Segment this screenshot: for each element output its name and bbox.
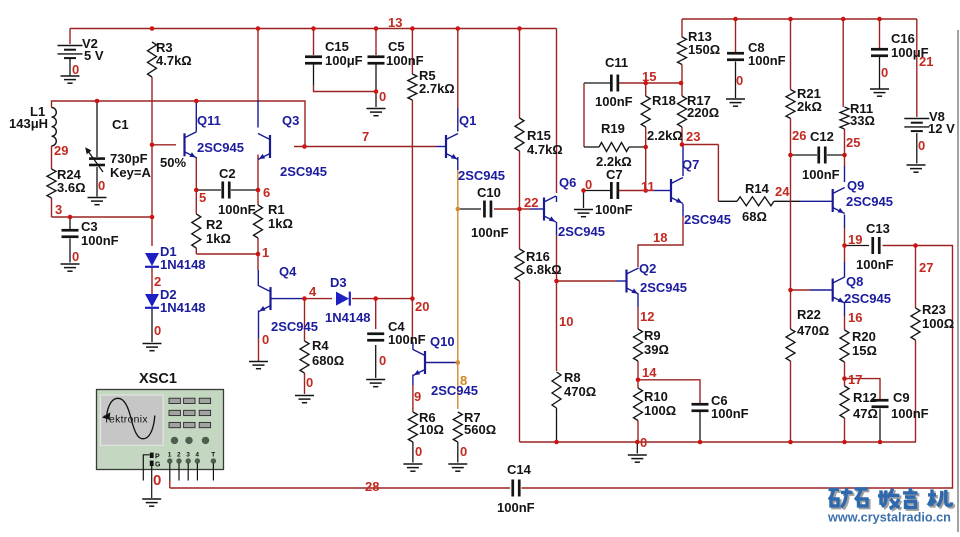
junction rail C6	[698, 440, 703, 445]
junction node21 C16	[877, 17, 882, 22]
wire Q3 emitter to node 6	[257, 155, 259, 191]
wire rail to C15	[313, 29, 315, 56]
transistor Q1 2SC945	[446, 134, 458, 160]
wire node 2 D1 to D2	[151, 268, 153, 295]
diode D1 1N4148	[145, 253, 159, 266]
wire Q8 emitter lead	[844, 303, 846, 316]
wire R16 bottom to 0V rail	[519, 281, 521, 442]
wire node 19 to Q8 collector	[844, 246, 846, 263]
svg-text:9: 9	[414, 389, 421, 404]
wire C10 to node 22	[494, 208, 520, 210]
svg-text:28: 28	[365, 479, 379, 494]
wire node 12	[637, 307, 639, 329]
junction node 0 C5/C15	[374, 89, 379, 94]
wire R1 bottom to node 1	[257, 238, 259, 254]
wire C11 right to node 15	[618, 82, 646, 84]
resistor R23 100	[911, 308, 920, 340]
ground Q4	[249, 362, 268, 369]
capacitor C5 100nF	[368, 55, 385, 58]
wire R2 bottom lead	[195, 248, 197, 254]
svg-text:23: 23	[686, 129, 700, 144]
resistor R19 2.2k	[599, 143, 629, 152]
wire R24 to node 3	[51, 198, 53, 217]
svg-text:1: 1	[168, 452, 172, 459]
capacitor C16 100uF	[871, 48, 888, 51]
wire R10 bottom to rail	[637, 421, 639, 443]
svg-text:25: 25	[846, 135, 860, 150]
junction node 15 R18	[643, 81, 648, 86]
variable capacitor C1 730pF	[89, 157, 105, 160]
wire node 20 to C4	[375, 299, 377, 329]
resistor R6 10	[408, 412, 417, 442]
wire R19 right lead	[629, 146, 646, 148]
junction node13 C5	[374, 26, 379, 31]
capacitor C2 100nF	[221, 182, 224, 199]
wire Q7 emitter lead	[682, 204, 684, 216]
wire C7 right to node 11	[618, 190, 646, 192]
svg-text:0: 0	[306, 375, 313, 390]
resistor R20 15	[840, 330, 849, 362]
svg-text:C14: C14	[507, 462, 532, 477]
svg-text:Key=A: Key=A	[110, 165, 151, 180]
wire rail to V8	[916, 19, 918, 117]
wire node 25 to Q9 collector	[844, 155, 846, 166]
diode D2 1N4148	[145, 294, 159, 307]
wire Q6 collector riser	[556, 29, 558, 194]
junction rail C9	[878, 440, 883, 445]
wire Q2 base lead	[616, 280, 627, 282]
capacitor C15 100uF	[305, 55, 322, 58]
wire rail to C5	[375, 29, 377, 56]
wire R23 bottom to rail	[915, 340, 917, 442]
svg-text:100nF: 100nF	[81, 233, 119, 248]
wire C7 left to ground	[584, 190, 612, 192]
svg-text:R18: R18	[652, 93, 676, 108]
wire Q8 collector lead	[844, 262, 846, 277]
svg-text:Q3: Q3	[282, 113, 299, 128]
wire scope pin 1 drop	[169, 480, 171, 488]
wire D3 cathode to node 20	[352, 298, 376, 300]
transistor Q10 2SC945	[413, 350, 425, 376]
junction node13 R3	[150, 26, 155, 31]
junction node 20	[410, 296, 415, 301]
svg-text:XSC1: XSC1	[139, 371, 177, 387]
transistor Q8 2SC945	[833, 277, 845, 303]
wire R8 bottom lead	[556, 408, 558, 442]
wire stub	[844, 442, 846, 443]
svg-text:Tektronix: Tektronix	[104, 414, 149, 425]
diode D3 1N4148	[336, 292, 349, 306]
svg-text:3: 3	[55, 202, 62, 217]
wire node 27 to C14 right	[522, 246, 953, 489]
ground V2	[61, 76, 80, 83]
svg-text:100nF: 100nF	[595, 202, 633, 217]
capacitor C10 100nF	[483, 201, 486, 218]
junction node13 R15	[517, 26, 522, 31]
svg-text:1N4148: 1N4148	[160, 300, 206, 315]
svg-text:6.8kΩ: 6.8kΩ	[526, 262, 562, 277]
svg-text:1: 1	[262, 245, 269, 260]
junction node 11 C7	[643, 188, 648, 193]
svg-text:1kΩ: 1kΩ	[268, 216, 293, 231]
junction node 19	[842, 243, 847, 248]
ground R4	[295, 396, 314, 403]
svg-text:R1: R1	[268, 202, 285, 217]
resistor R14 68	[737, 197, 774, 206]
wire node 1 down	[257, 254, 259, 270]
wire 0V bottom rail	[520, 441, 917, 443]
wire Q6 emitter lead	[556, 222, 558, 235]
svg-text:R20: R20	[852, 329, 876, 344]
ground 0V rail	[628, 455, 647, 462]
wire R18 top lead	[645, 83, 647, 96]
svg-text:2SC945: 2SC945	[431, 383, 478, 398]
svg-text:C15: C15	[325, 39, 349, 54]
wire Q4 emitter to ground	[258, 338, 260, 361]
resistor R1 1k	[254, 205, 263, 238]
svg-text:Q10: Q10	[430, 334, 455, 349]
wire R6 to ground	[412, 442, 414, 463]
resistor R5 2.7k	[408, 74, 417, 100]
wire ground stub at C7	[583, 191, 585, 209]
junction node21 C8	[733, 17, 738, 22]
wire rail to R5	[411, 29, 413, 75]
wire Q10 collector lead	[412, 342, 414, 350]
svg-text:15Ω: 15Ω	[852, 343, 877, 358]
svg-text:470Ω: 470Ω	[564, 384, 596, 399]
junction node 7	[302, 144, 307, 149]
junction node 4	[302, 296, 307, 301]
wire R17 top	[681, 83, 683, 96]
junction node 17	[842, 376, 847, 381]
wire node 3 vertical to D1	[151, 145, 153, 246]
svg-text:Q4: Q4	[279, 264, 297, 279]
ground C4	[366, 380, 385, 387]
junction node21 R21	[788, 17, 793, 22]
svg-text:143μH: 143μH	[9, 116, 48, 131]
wire C12 left lead	[791, 154, 818, 156]
svg-text:22: 22	[524, 195, 538, 210]
wire node 26 vertical (crosses R14 wire)	[790, 155, 792, 290]
battery V2 5V	[58, 46, 83, 59]
wire node 11 vertical	[645, 147, 647, 191]
svg-text:20: 20	[415, 299, 429, 314]
svg-text:12 V: 12 V	[928, 121, 955, 136]
svg-text:1kΩ: 1kΩ	[206, 231, 231, 246]
svg-text:2SC945: 2SC945	[280, 164, 327, 179]
svg-text:2SC945: 2SC945	[684, 212, 731, 227]
svg-text:0: 0	[918, 138, 925, 153]
watermark crystalradio logo	[830, 490, 953, 511]
resistor R2 1k	[192, 214, 201, 248]
svg-text:R22: R22	[797, 307, 821, 322]
svg-text:12: 12	[640, 309, 654, 324]
junction node 3	[150, 215, 155, 220]
svg-text:18: 18	[653, 230, 667, 245]
svg-text:100nF: 100nF	[711, 406, 749, 421]
junction Q11 base	[150, 143, 155, 148]
junction node 22	[517, 207, 522, 212]
junction node 6	[256, 188, 261, 193]
svg-text:0: 0	[460, 444, 467, 459]
wire tank net L1/C1/Q11 to node 7	[52, 101, 306, 147]
wire ground stub 0V rail	[636, 442, 638, 454]
svg-text:R8: R8	[564, 370, 581, 385]
wire Q8 base lead	[810, 289, 833, 291]
svg-text:C1: C1	[112, 117, 129, 132]
svg-text:5: 5	[199, 190, 206, 205]
wire R7 to ground	[457, 442, 459, 463]
svg-text:680Ω: 680Ω	[312, 353, 344, 368]
wire C1 to ground	[96, 167, 98, 197]
wire C8 bottom to ground	[735, 62, 737, 99]
wire V8 negative to ground	[916, 133, 918, 164]
wire node 15	[646, 82, 681, 84]
wire C13 left lead	[845, 245, 870, 247]
junction node 23	[680, 142, 685, 147]
wire C2 to node 6	[231, 189, 258, 191]
wire C15 to node 0 at C5	[314, 85, 377, 92]
junction node 27	[913, 243, 918, 248]
svg-text:1N4148: 1N4148	[325, 310, 371, 325]
wire R9 bottom to node 14	[637, 361, 639, 380]
svg-text:100Ω: 100Ω	[922, 316, 954, 331]
svg-text:4: 4	[195, 452, 199, 459]
svg-text:Q1: Q1	[459, 113, 476, 128]
svg-text:1N4148: 1N4148	[160, 257, 206, 272]
ground V8	[907, 165, 926, 172]
resistor R22 470	[786, 329, 795, 361]
svg-text:P: P	[155, 454, 160, 461]
svg-text:0: 0	[72, 62, 79, 77]
wire node 3 to C3	[69, 217, 71, 229]
ground C16	[870, 89, 889, 96]
junction node 8 C10	[456, 207, 461, 212]
resistor R8 470	[552, 372, 561, 408]
capacitor C11 100nF	[610, 75, 613, 92]
wire ground stub node 0 at C5	[375, 92, 377, 108]
junction node13 Q1	[456, 26, 461, 31]
transistor Q7 2SC945	[671, 178, 683, 204]
svg-text:7: 7	[362, 129, 369, 144]
svg-text:100nF: 100nF	[471, 225, 509, 240]
wire R12 bottom to rail	[844, 418, 846, 442]
battery V8 12V	[904, 119, 929, 132]
junction node 25	[842, 153, 847, 158]
svg-text:0: 0	[881, 65, 888, 80]
svg-text:4.7kΩ: 4.7kΩ	[156, 53, 192, 68]
resistor R21 2k	[786, 90, 795, 119]
ground C7	[574, 210, 593, 217]
wire node 26 to Q8 base	[791, 289, 811, 291]
resistor R11 33	[840, 107, 849, 129]
wire tank to C1	[96, 101, 98, 157]
wire L1 to R24	[51, 146, 53, 169]
wire R20 bottom to node 17	[844, 362, 846, 379]
svg-text:Q2: Q2	[639, 261, 656, 276]
junction rail R8	[554, 440, 559, 445]
svg-text:100nF: 100nF	[388, 332, 426, 347]
wire node 8 to C10	[458, 208, 481, 210]
svg-text:www.crystalradio.cn: www.crystalradio.cn	[827, 511, 951, 525]
resistor R18 2.2k	[641, 96, 650, 127]
svg-text:33Ω: 33Ω	[850, 113, 875, 128]
wire R13 bottom to node 15	[681, 65, 683, 84]
wire node 5 to R2	[195, 190, 197, 214]
svg-text:R23: R23	[922, 302, 946, 317]
wire node 17 to R12	[844, 379, 846, 386]
transistor Q9 2SC945	[833, 188, 845, 214]
svg-text:Q8: Q8	[846, 274, 863, 289]
svg-text:G: G	[155, 462, 161, 469]
wire C5 bottom lead	[375, 65, 377, 92]
svg-text:C5: C5	[388, 39, 405, 54]
transistor Q2 2SC945	[627, 268, 639, 294]
wire rail to C8	[735, 19, 737, 52]
wire D2 to ground	[151, 309, 153, 342]
junction node 26 Q8 base	[788, 288, 793, 293]
svg-text:0: 0	[98, 178, 105, 193]
wire Q6 base lead	[530, 208, 544, 210]
resistor R15 4.7k	[515, 118, 524, 151]
resistor R17 220	[678, 96, 687, 127]
wire node 21 +12V rail	[682, 18, 917, 20]
wire Q3 collector lead	[257, 100, 259, 128]
wire Q4 collector lead	[257, 270, 259, 286]
wire node 20 horizontal	[376, 298, 413, 300]
wire R19 left lead	[584, 146, 599, 148]
svg-text:470Ω: 470Ω	[797, 323, 829, 338]
junction node 5	[194, 188, 199, 193]
wire node 22 to R16	[519, 209, 521, 249]
svg-text:39Ω: 39Ω	[644, 342, 669, 357]
svg-text:2kΩ: 2kΩ	[797, 99, 822, 114]
junction rail R22	[788, 440, 793, 445]
wire Q10 emitter lead	[412, 375, 414, 386]
svg-text:17: 17	[848, 372, 862, 387]
capacitor C12 100nF	[817, 147, 820, 164]
wire Q6 collector lead	[556, 196, 558, 202]
junction node 0 C7	[581, 188, 586, 193]
wire C11 left lead	[584, 82, 611, 84]
capacitor C14 100nF	[511, 480, 514, 497]
wire C4 to ground	[375, 345, 377, 378]
svg-text:C13: C13	[866, 221, 890, 236]
ground C5/C15	[367, 109, 386, 116]
junction node 20 C4	[373, 296, 378, 301]
svg-text:2SC945: 2SC945	[558, 224, 605, 239]
wire C13 right to node 27	[883, 245, 916, 247]
wire C15 bottom lead	[313, 65, 315, 86]
wire node 26 to R22	[790, 290, 792, 329]
svg-text:27: 27	[919, 260, 933, 275]
junction node 3 C3	[68, 215, 73, 220]
svg-text:C9: C9	[893, 390, 910, 405]
wire V2 positive lead	[69, 29, 71, 45]
svg-text:15: 15	[642, 69, 656, 84]
wire node 7	[294, 146, 436, 148]
wire Q2 emitter lead	[637, 294, 639, 307]
resistor R10 100	[634, 388, 643, 420]
wire Q7 base lead 2	[659, 190, 671, 192]
svg-text:100nF: 100nF	[218, 202, 256, 217]
wire V2 negative to ground	[69, 58, 71, 76]
capacitor C3 100nF	[62, 229, 79, 232]
junction rail R10	[635, 440, 640, 445]
wire node 24 Q9 base lead	[800, 200, 833, 202]
wire node 27 to R23	[915, 246, 917, 309]
svg-text:220Ω: 220Ω	[687, 105, 719, 120]
wire rail to R13	[681, 19, 683, 37]
ground D2	[143, 344, 162, 351]
wire Q10 base lead to node 8	[425, 362, 458, 364]
wire R4 to ground	[304, 373, 306, 394]
wire R3 bottom to Q11 base junction	[151, 77, 153, 145]
svg-text:0: 0	[72, 249, 79, 264]
junction node13 C15	[311, 26, 316, 31]
wire C16 to ground	[879, 57, 881, 89]
ground R7	[448, 464, 467, 471]
svg-text:0: 0	[154, 323, 161, 338]
transistor Q3 2SC945	[258, 134, 270, 160]
wire node 10 vertical	[556, 235, 558, 371]
junction node21 R11	[841, 17, 846, 22]
wire Q11 base	[152, 144, 176, 146]
svg-text:0: 0	[153, 472, 161, 489]
ground C8	[726, 99, 745, 106]
svg-text:3: 3	[186, 452, 190, 459]
svg-text:16: 16	[848, 310, 862, 325]
svg-text:2SC945: 2SC945	[640, 280, 687, 295]
svg-text:68Ω: 68Ω	[742, 209, 767, 224]
wire Q11 emitter to node 5	[195, 157, 197, 190]
wire node 4 to D3	[305, 298, 333, 300]
svg-text:2SC945: 2SC945	[458, 168, 505, 183]
wire Q7 collector riser	[682, 145, 684, 177]
svg-text:100nF: 100nF	[802, 167, 840, 182]
svg-text:Q11: Q11	[197, 113, 221, 128]
svg-text:3.6Ω: 3.6Ω	[57, 180, 86, 195]
wire R14 right lead	[774, 200, 800, 202]
wire Q1 collector lead	[457, 108, 459, 132]
svg-text:R12: R12	[853, 390, 877, 405]
wire R21 bottom to node 26	[790, 119, 792, 156]
junction node 10 Q2 base	[554, 279, 559, 284]
wire rail to R15	[519, 29, 521, 119]
svg-text:2SC945: 2SC945	[844, 291, 891, 306]
wire node 22 to Q6 base	[520, 208, 531, 210]
svg-text:C11: C11	[605, 55, 628, 70]
wire Q4 base to node 4	[271, 298, 305, 300]
wire C11 left to R19 left	[583, 83, 585, 147]
svg-text:C3: C3	[81, 219, 98, 234]
svg-text:C10: C10	[477, 185, 501, 200]
wire rail to Q1 collector	[457, 29, 459, 109]
wire Q9 emitter to node 19	[844, 228, 846, 246]
capacitor C13 100nF	[871, 237, 874, 254]
svg-text:2SC945: 2SC945	[846, 194, 893, 209]
capacitor C4 100nF	[367, 332, 384, 335]
svg-text:560Ω: 560Ω	[464, 422, 496, 437]
svg-text:100nF: 100nF	[595, 94, 633, 109]
wire node 4 to R4	[304, 299, 306, 341]
svg-text:29: 29	[54, 143, 68, 158]
svg-text:R15: R15	[527, 128, 551, 143]
svg-text:R2: R2	[206, 217, 223, 232]
svg-text:D3: D3	[330, 275, 347, 290]
wire node 9	[412, 385, 414, 412]
wire R22 bottom to rail	[790, 361, 792, 442]
